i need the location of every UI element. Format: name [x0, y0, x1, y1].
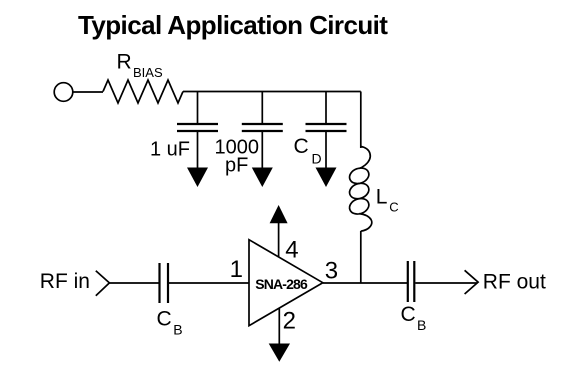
terminal circle	[54, 83, 73, 102]
svg-text:L: L	[376, 186, 388, 209]
svg-text:R: R	[117, 50, 132, 73]
capacitor C2 1000pF bottom plate	[242, 130, 283, 132]
wire cap C2 to ground	[261, 131, 263, 170]
capacitor C1 1uF bottom plate	[177, 130, 218, 132]
svg-text:pF: pF	[225, 154, 248, 176]
wire cap C2 drop	[261, 92, 263, 125]
capacitor CB input right plate	[167, 263, 169, 303]
inductor LC entry arc	[359, 147, 370, 169]
wire cap C1 to ground	[197, 131, 199, 170]
svg-text:RF out: RF out	[483, 271, 546, 294]
output chevron	[465, 270, 479, 294]
svg-text:C: C	[294, 135, 309, 158]
capacitor CB output right plate	[413, 261, 415, 302]
capacitor C1 1uF top plate	[177, 123, 218, 125]
wire bias line horizontal	[183, 91, 361, 93]
arrow pin 4 up	[270, 205, 288, 223]
wire pin 4 up	[278, 223, 280, 257]
ground arrow pin 2	[269, 344, 290, 362]
capacitor C3 CD top plate	[306, 123, 347, 125]
ground arrow C2	[252, 168, 273, 188]
capacitor CB input left plate	[158, 263, 160, 303]
wire inductor top	[360, 92, 362, 149]
wire terminal to resistor	[73, 91, 103, 93]
inductor LC loop 3	[347, 196, 371, 217]
svg-text:2: 2	[283, 308, 296, 335]
wire inductor bottom to output node	[360, 231, 362, 283]
ground arrow C1	[187, 168, 208, 188]
wire cap C1 drop	[197, 92, 199, 125]
svg-text:B: B	[417, 317, 426, 333]
resistor R1 RBIAS zigzag	[103, 80, 183, 103]
svg-text:C: C	[401, 303, 416, 326]
wire cap C3 drop	[325, 92, 327, 125]
wire cap C3 to ground	[325, 131, 327, 170]
capacitor CB output left plate	[407, 261, 409, 302]
svg-text:SNA-286: SNA-286	[255, 276, 308, 292]
wire amp output to CB out	[323, 282, 407, 284]
svg-text:C: C	[157, 307, 172, 330]
wire pin 2 down	[278, 308, 280, 344]
inductor LC loop 2	[347, 181, 371, 202]
input chevron	[96, 271, 110, 296]
ground arrow C3	[316, 168, 337, 188]
svg-text:Typical Application Circuit: Typical Application Circuit	[78, 10, 388, 40]
capacitor C3 CD bottom plate	[306, 130, 347, 132]
inductor LC exit arc	[359, 214, 372, 232]
wire CB out to RF out	[415, 282, 477, 284]
wire CB to amp pin 1	[169, 282, 249, 284]
svg-text:RF in: RF in	[40, 270, 90, 293]
svg-text:BIAS: BIAS	[133, 65, 163, 80]
op-amp U1 SNA-286 triangle	[249, 240, 323, 326]
svg-text:D: D	[312, 150, 322, 166]
svg-text:3: 3	[325, 257, 338, 284]
svg-text:1: 1	[230, 256, 243, 283]
inductor LC loop 1	[347, 165, 371, 186]
svg-text:4: 4	[285, 236, 298, 263]
svg-text:C: C	[389, 199, 398, 214]
svg-text:1 uF: 1 uF	[150, 139, 190, 161]
svg-text:B: B	[173, 321, 182, 337]
capacitor C2 1000pF top plate	[242, 123, 283, 125]
wire RF in to CB	[109, 282, 158, 284]
